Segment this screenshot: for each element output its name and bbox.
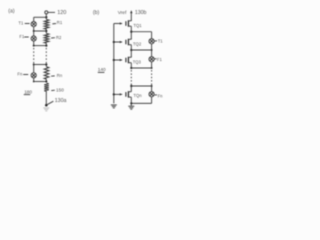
wire [33,78,35,82]
svg-text:120: 120 [57,10,66,16]
label F1b [154,58,156,60]
wire [130,45,132,57]
svg-text:(a): (a) [8,8,15,14]
lamp Fn [31,73,36,78]
transistor TQn [114,91,132,98]
svg-text:140: 140 [98,67,106,72]
resistor R2 [45,31,47,34]
wire [33,65,35,73]
svg-text:T1: T1 [158,39,164,44]
ellipsis lamp column [151,70,153,72]
wire [151,62,153,68]
ellipsis dots left column [33,48,35,50]
svg-text:T1: T1 [18,21,24,26]
svg-text:TQn: TQn [133,93,142,98]
node [130,31,132,33]
resistor Rn [45,65,47,67]
svg-text:130b: 130b [135,10,147,16]
current arrow up [130,13,132,21]
label T1b [155,40,157,42]
terminal 120 [45,11,48,14]
node rung 2 [34,30,47,32]
svg-text:(b): (b) [93,10,100,16]
svg-text:TQ1: TQ1 [133,23,142,28]
gate rail [113,24,115,104]
rung b1 [131,31,151,33]
wire [45,91,47,105]
svg-text:Fn: Fn [158,93,164,98]
lamp Fnb [151,86,153,92]
transistor TQ3 [114,57,132,64]
node rung 5 [34,81,47,83]
node rung 3 [34,45,47,47]
svg-text:180: 180 [24,89,32,94]
svg-text:Rn: Rn [57,73,63,78]
label R2 [51,37,55,39]
label 150 [51,89,55,91]
svg-text:R2: R2 [56,35,62,40]
lamp F1b [149,57,154,62]
svg-text:F1: F1 [19,34,25,39]
lamp T1 [31,22,36,27]
rung b4 [131,85,151,87]
node rung 1 [34,16,47,18]
wire [130,86,132,91]
label Rn [51,75,55,77]
wire [33,41,35,46]
ground main [130,103,132,105]
ellipsis main line [130,70,132,72]
svg-text:130a: 130a [55,98,67,104]
wire [33,31,35,36]
wire to 120 label [48,11,55,13]
ellipsis dots right column [45,48,47,50]
lamp T1b [149,39,154,44]
transistor TQ2 [114,39,132,46]
resistor R1 [45,17,47,19]
bottom rung [131,102,151,104]
label Fnb [155,94,157,96]
wire [45,14,47,17]
label R1 [52,23,56,25]
lamp F1 [31,36,36,41]
transistor TQ1 [114,20,132,27]
rung b2 [131,49,151,51]
ground rail [111,104,117,106]
wire [130,98,132,104]
resistor 150 [44,83,49,91]
wire [130,63,132,68]
node rung 4 [34,64,47,66]
rung b3 [131,67,151,69]
ground (a) faint [43,107,49,109]
lamp column top wire [151,32,153,39]
svg-text:R1: R1 [57,20,63,25]
svg-text:Vref: Vref [118,10,127,16]
svg-text:Fn: Fn [17,72,23,77]
wire [130,27,132,39]
node 130a [45,104,48,107]
leader to 130a [47,101,53,104]
wires lamp column [151,44,153,50]
svg-text:TQ2: TQ2 [133,41,142,46]
svg-text:F1: F1 [157,57,163,62]
wire [33,17,35,21]
svg-text:150: 150 [56,87,64,92]
svg-text:TQ3: TQ3 [133,59,142,64]
wire [33,27,35,31]
